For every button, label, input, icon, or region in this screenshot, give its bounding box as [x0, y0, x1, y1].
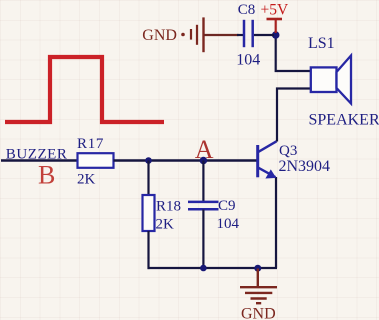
wire: [1, 159, 78, 161]
wire: [202, 210, 204, 269]
wire: [237, 34, 243, 36]
power ground GND top: [142, 17, 238, 52]
junction dot: [200, 157, 208, 165]
svg-text:LS1: LS1: [308, 35, 335, 52]
junction dot: [200, 265, 207, 272]
wire: [147, 161, 149, 196]
junction dot: [254, 265, 261, 272]
svg-text:2K: 2K: [156, 216, 175, 232]
wire: [148, 267, 278, 269]
svg-text:+5V: +5V: [261, 2, 289, 19]
svg-text:Q3: Q3: [279, 143, 297, 159]
capacitor C8: [236, 2, 260, 68]
resistor R18: [143, 195, 182, 232]
svg-text:SPEAKER: SPEAKER: [309, 112, 379, 129]
svg-text:2K: 2K: [77, 172, 96, 188]
junction dot: [272, 31, 280, 39]
svg-text:104: 104: [217, 216, 240, 232]
resistor R17: [77, 136, 114, 188]
wire: [254, 34, 274, 36]
power +5V: [261, 2, 289, 33]
wire: [202, 161, 204, 202]
wire: [114, 159, 257, 161]
transistor Q3: [258, 141, 330, 178]
svg-text:GND: GND: [241, 306, 276, 320]
svg-text:R18: R18: [156, 198, 181, 214]
pulse waveform: [5, 57, 164, 122]
wire: [275, 177, 277, 268]
svg-text:R17: R17: [77, 136, 104, 152]
capacitor C9: [188, 198, 240, 232]
svg-text:GND: GND: [142, 27, 177, 44]
ground GND bottom: [240, 269, 277, 320]
wire from +5V junction to speaker top: [276, 35, 310, 71]
wire collector: [277, 89, 310, 142]
wire: [147, 231, 149, 269]
svg-text:B: B: [38, 161, 55, 190]
junction dot: [145, 157, 152, 164]
speaker LS1: [308, 35, 379, 128]
svg-text:104: 104: [236, 52, 260, 69]
svg-text:C8: C8: [238, 2, 256, 18]
svg-text:2N3904: 2N3904: [279, 158, 331, 175]
svg-text:C9: C9: [218, 198, 236, 214]
